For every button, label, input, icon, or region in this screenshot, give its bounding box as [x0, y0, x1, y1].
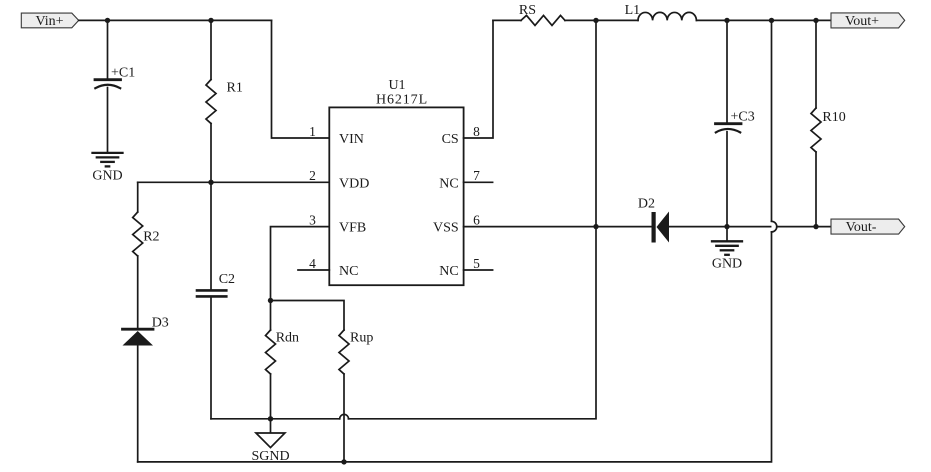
wire top from Vin+ to corner: [79, 19, 272, 21]
inductor L1: [625, 3, 697, 20]
node junction Rdn bottom / SGND: [268, 416, 273, 421]
svg-text:H6217L: H6217L: [376, 93, 428, 108]
svg-text:GND: GND: [92, 168, 122, 183]
svg-text:VDD: VDD: [339, 176, 369, 191]
svg-text:U1: U1: [388, 78, 405, 93]
resistor R2: [133, 212, 160, 256]
svg-text:L1: L1: [625, 3, 641, 18]
svg-text:5: 5: [473, 256, 480, 271]
svg-text:NC: NC: [439, 264, 458, 279]
svg-text:RS: RS: [519, 3, 536, 18]
svg-text:R1: R1: [227, 81, 243, 96]
wire C1 to GND: [107, 88, 109, 153]
svg-text:VSS: VSS: [433, 221, 459, 236]
svg-text:CS: CS: [442, 132, 459, 147]
svg-text:NC: NC: [439, 176, 458, 191]
svg-text:7: 7: [473, 168, 480, 183]
pin 4 NC: [298, 256, 358, 279]
net flag Vout-: [831, 219, 905, 235]
wire down left branch: [137, 182, 139, 212]
wire hop over Vout- line: [772, 221, 777, 232]
capacitor C2: [197, 182, 235, 418]
op-amp U1 IC box: [329, 78, 463, 285]
svg-text:D2: D2: [638, 197, 655, 212]
node junction Rup bottom: [341, 459, 346, 464]
wire down to pin1 VIN: [272, 20, 330, 138]
wire C1 top: [107, 20, 109, 78]
svg-text:6: 6: [473, 212, 480, 227]
svg-text:+C1: +C1: [111, 66, 135, 81]
net flag Vin+: [21, 13, 78, 29]
ground GND (output): [712, 227, 742, 272]
wire D3 to bottom: [137, 346, 139, 462]
node junction D2/C3/GND: [724, 224, 729, 229]
wire VFB pin3: [271, 227, 330, 301]
wire R2 to D3: [137, 256, 139, 328]
ground GND (C1): [92, 153, 122, 183]
svg-text:VIN: VIN: [339, 132, 364, 147]
svg-text:SGND: SGND: [251, 449, 289, 464]
resistor RS: [519, 3, 565, 25]
svg-text:D3: D3: [152, 316, 169, 331]
capacitor C1: [95, 66, 135, 89]
svg-text:Rup: Rup: [350, 330, 373, 345]
pin 6 VSS: [433, 212, 651, 235]
svg-text:8: 8: [473, 124, 480, 139]
wire L1 to Vout+ flag: [696, 19, 831, 21]
pin 7 NC: [439, 168, 492, 191]
wire hop over Rup: [340, 414, 349, 418]
wire mid rail y=418.8: [211, 418, 340, 420]
pin 3 VFB: [309, 212, 366, 235]
svg-text:Vin+: Vin+: [35, 14, 63, 29]
wire D2 to GND node and Vout-: [669, 226, 771, 228]
resistor Rdn: [266, 301, 300, 419]
node junction at C1 top: [105, 18, 110, 23]
svg-text:4: 4: [309, 256, 316, 271]
pin 2 VDD: [309, 168, 369, 191]
svg-text:Vout-: Vout-: [846, 220, 877, 235]
node junction switch node: [593, 18, 598, 23]
resistor R1: [206, 20, 243, 182]
svg-text:R10: R10: [822, 110, 845, 125]
svg-text:GND: GND: [712, 257, 742, 272]
node junction VFB divider: [268, 298, 273, 303]
wire after hop to Vout- flag: [777, 226, 831, 228]
wire divider top: [271, 301, 345, 331]
svg-text:Rdn: Rdn: [276, 330, 299, 345]
capacitor C3: [716, 20, 755, 226]
resistor R10: [811, 20, 846, 226]
pin 5 NC: [439, 256, 492, 279]
wire RS to L1 junction: [565, 19, 638, 21]
svg-text:3: 3: [309, 212, 316, 227]
node junction R10 bottom: [813, 224, 818, 229]
diode D2: [638, 197, 669, 243]
pin 8 CS: [442, 20, 493, 147]
wire CS to RS: [493, 19, 521, 21]
svg-text:NC: NC: [339, 264, 358, 279]
node junction VSS cross: [593, 224, 598, 229]
node junction R10 top: [813, 18, 818, 23]
resistor Rup: [339, 330, 373, 462]
svg-text:+C3: +C3: [731, 110, 755, 125]
node junction VDD/R1/C2: [208, 180, 213, 185]
svg-text:1: 1: [309, 124, 316, 139]
svg-text:R2: R2: [143, 230, 159, 245]
pin 1 VIN: [309, 124, 364, 147]
net flag Vout+: [831, 13, 905, 29]
ground SGND: [251, 419, 289, 464]
node junction C3 top: [724, 18, 729, 23]
node junction bottom-rail riser top: [769, 18, 774, 23]
wire VDD line pin2: [138, 181, 330, 183]
svg-text:2: 2: [309, 168, 316, 183]
svg-text:VFB: VFB: [339, 221, 366, 236]
svg-text:C2: C2: [219, 272, 235, 287]
wire bottom rail: [138, 232, 772, 462]
svg-text:Vout+: Vout+: [845, 14, 879, 29]
node junction at R1 top: [208, 18, 213, 23]
diode D3: [123, 316, 169, 346]
